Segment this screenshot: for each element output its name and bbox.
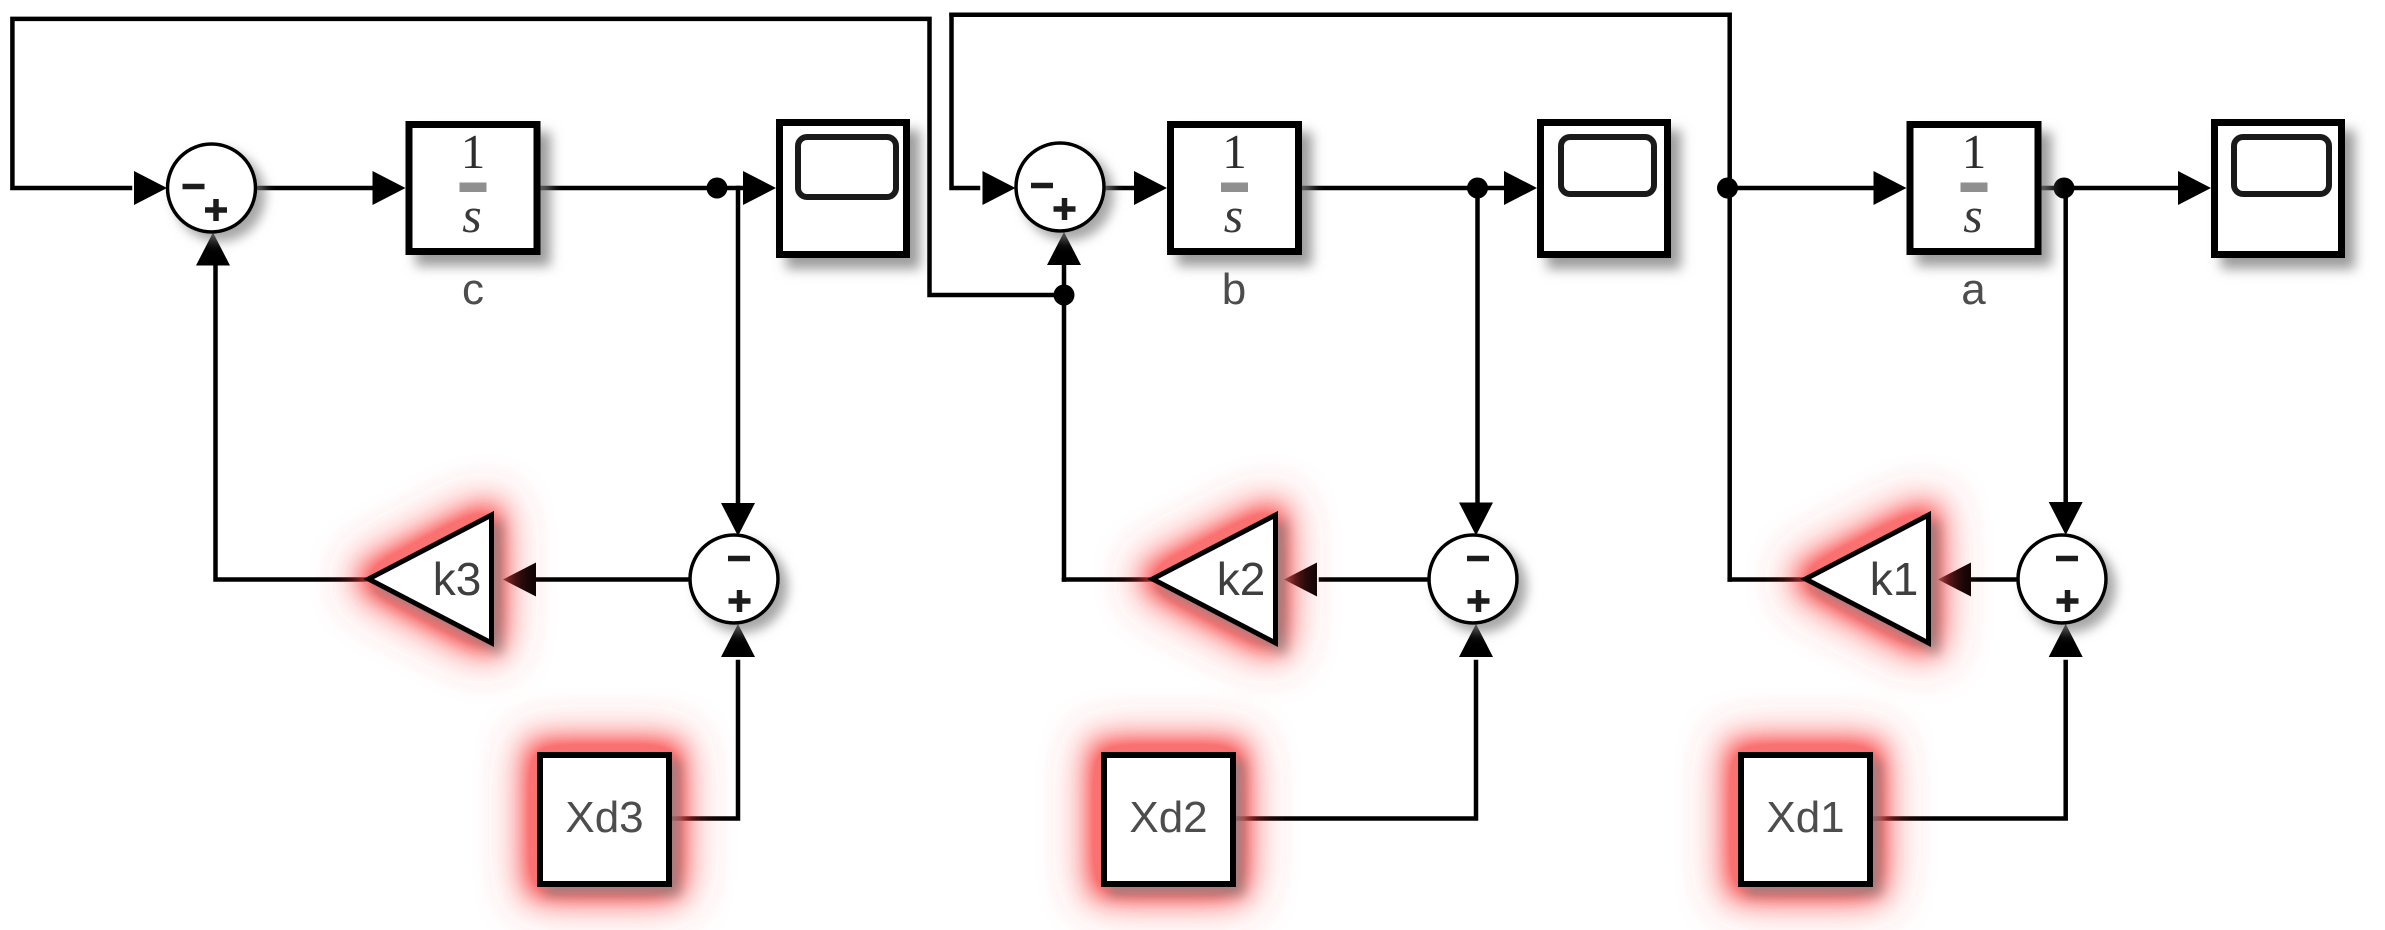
node: Integrator b output branch (dot) [1467,178,1488,199]
svg-text:1: 1 [1222,124,1247,179]
svg-text:k1: k1 [1870,553,1919,605]
wire: Sum b output to Integrator b input [1105,171,1168,205]
node: gain k1 output branch (dot) [1717,178,1738,199]
wire: gain k2 output to Sum c left input (feedback via top rail 1) [12,19,1064,295]
svg-text:1: 1 [1962,124,1987,179]
svg-text:s: s [1963,187,1982,243]
wire: Integrator a output branch down to Sum2 a top input [2049,188,2083,535]
svg-text:b: b [1222,265,1246,314]
wire: Integrator b output to Scope b input [1301,171,1537,205]
node: Integrator c output branch (dot) [707,178,728,199]
wire: Sum2 a output to gain k1 input [1938,563,2018,597]
svg-text:Xd1: Xd1 [1766,793,1844,842]
constant block Xd2 (highlighted) [1101,752,1236,887]
wire: constant Xd2 output to Sum2 b bottom input [1236,624,1493,819]
svg-text:k2: k2 [1217,553,1266,605]
node: Integrator a output branch (dot) [2054,178,2075,199]
svg-text:1: 1 [461,124,486,179]
constant block Xd3 (highlighted) [537,752,672,887]
gain k2 (triangle, highlighted) [1153,515,1276,643]
integrator block c (1/s) [409,124,537,252]
wire: Integrator a output to Scope a input [2041,171,2212,205]
scope Scope a [2215,123,2342,255]
svg-text:Xd2: Xd2 [1129,793,1207,842]
sum junction Sum c (minus left, plus bottom) [168,144,256,232]
sum junction Sum2 b (minus top, plus bottom) [1429,535,1517,623]
gain k3 (triangle, highlighted) [369,515,492,643]
sum junction Sum2 c (minus top, plus bottom) [690,535,778,623]
wire: constant Xd3 output to Sum2 c bottom input [672,624,755,819]
wire: gain k2 output segment to riser corner [1064,577,1151,582]
wire: Integrator c output to Scope c input [541,171,777,205]
wire: gain k2 output riser into Sum c bottom input [1047,232,1081,580]
wire: Integrator c output branch down to Sum2 c top input [721,188,755,536]
wire: gain k1 output to Sum b left input (feedback via top rail 2) [952,15,1016,205]
wire: Integrator b output branch down to Sum2 b top input [1459,188,1493,536]
label b [1222,265,1246,314]
wire: gain k3 output up into Sum c bottom input [196,233,365,580]
scope Scope b [1541,123,1668,255]
wire: Sum c output to Integrator c input [256,171,406,205]
svg-text:a: a [1961,265,1986,314]
wire: Sum2 b output to gain k2 input [1284,563,1429,597]
label a [1961,265,1986,314]
gain k1 (triangle, highlighted) [1806,515,1929,643]
scope Scope c [780,123,907,255]
wire: constant Xd1 output to Sum2 a bottom input [1873,624,2083,819]
node: branch junction of k2 output (dot) [1054,285,1075,306]
sum junction Sum2 a (minus top, plus bottom) [2018,535,2106,623]
integrator block b (1/s) [1171,124,1299,252]
integrator block a (1/s) [1910,124,2038,252]
sum junction Sum b (minus left, plus bottom) [1016,143,1104,231]
svg-text:c: c [462,265,484,314]
wire: node B to Integrator a input [1730,171,1907,205]
svg-text:k3: k3 [433,553,482,605]
svg-text:s: s [1224,187,1243,243]
wire: gain k1 output segment to riser corner [1730,577,1802,582]
wire: Sum2 c output to gain k3 input [503,563,690,597]
wire: top rail 2 with riser through node B (k1 output) [952,15,1730,580]
svg-text:Xd3: Xd3 [565,793,643,842]
label c [462,265,484,314]
svg-text:s: s [462,187,481,243]
constant block Xd1 (highlighted) [1738,752,1873,887]
